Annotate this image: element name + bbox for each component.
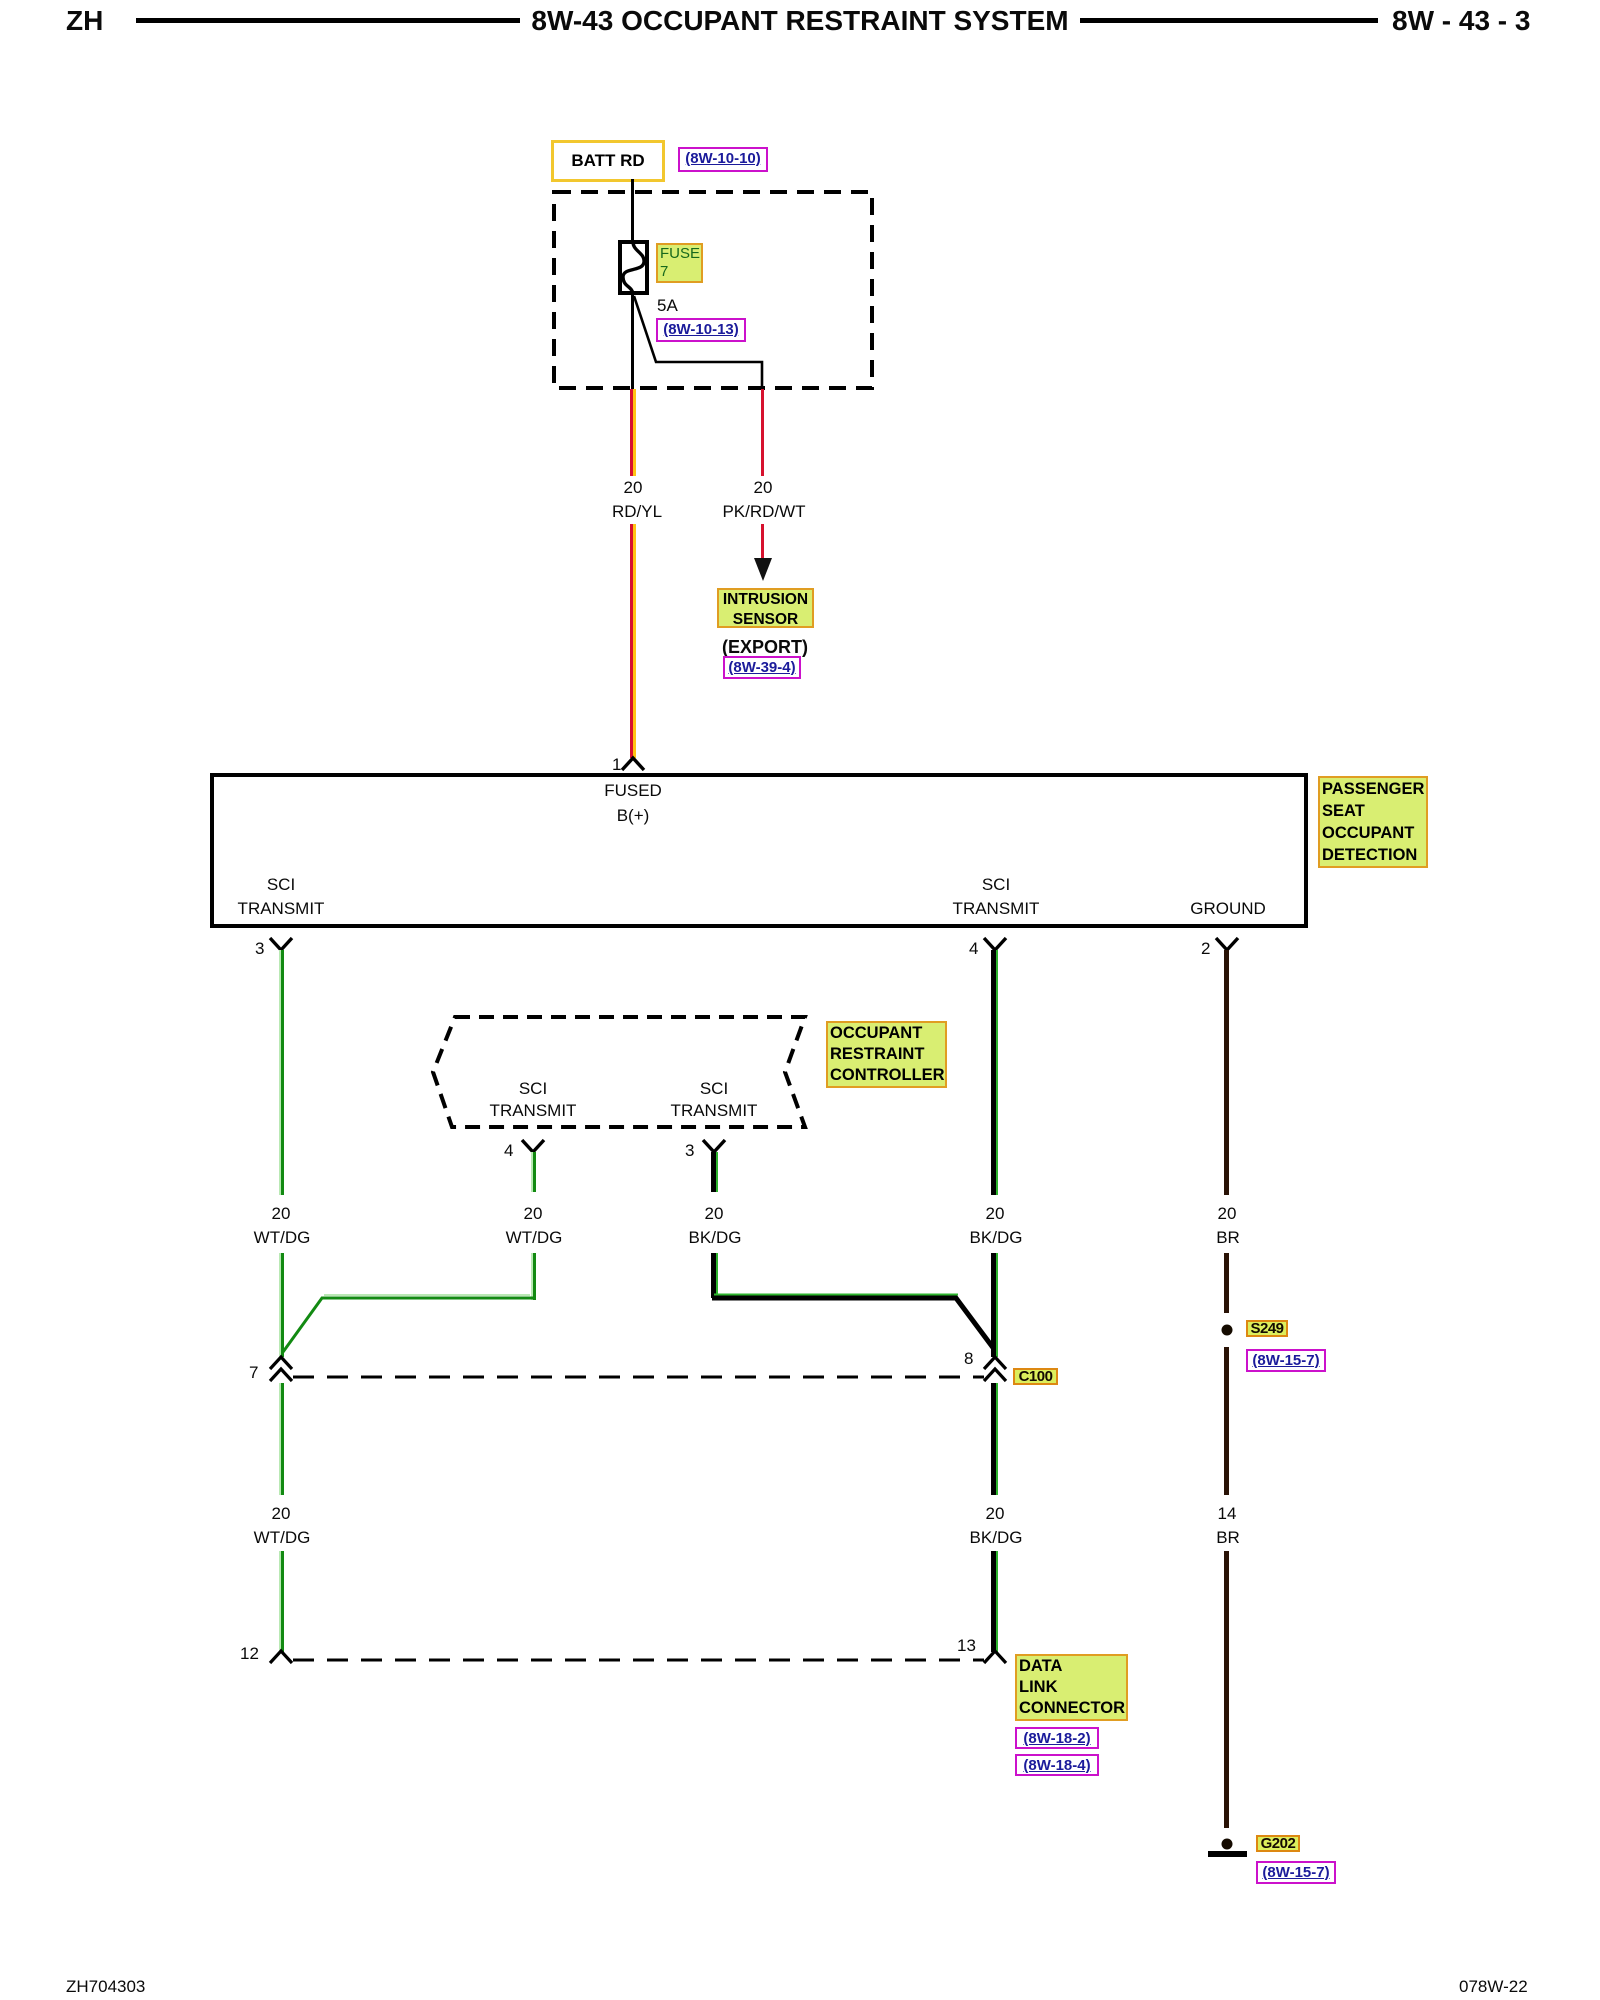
- node SCI TRANSMIT ORC left: [519, 1080, 547, 1098]
- component label INTRUSION SENSOR: [717, 588, 814, 628]
- wire BR pin2 segment 1: [1224, 950, 1229, 1195]
- node GROUND: [1190, 900, 1266, 918]
- fuse rating 5A: [657, 297, 678, 315]
- pin 8 number: [964, 1350, 973, 1368]
- wire label 20 BR row1: [1218, 1205, 1237, 1223]
- link (8W-39-4): [723, 656, 801, 679]
- link (8W-15-7) at S249: [1246, 1349, 1326, 1372]
- link (8W-10-13): [656, 318, 746, 342]
- wire WT/DG ORC segment 1: [531, 1152, 536, 1192]
- wire 20 PK/RD/WT upper segment: [761, 389, 764, 476]
- node SCI TRANSMIT ORC right: [700, 1080, 728, 1098]
- ground G202 label: [1256, 1835, 1300, 1852]
- header rule left: [136, 18, 520, 23]
- header page number: [1392, 7, 1530, 35]
- wire WT/DG pin3 segment 2: [279, 1253, 284, 1357]
- wire BK/DG pin4 segment 4: [991, 1551, 998, 1652]
- header rule right: [1080, 18, 1378, 23]
- splice S249 label: [1246, 1320, 1288, 1337]
- header label ZH: [66, 7, 103, 35]
- wire 20 PK/RD/WT lower segment: [761, 524, 764, 558]
- wire label 20 RD/YL: [624, 479, 643, 497]
- wire BK/DG pin4 segment 1: [991, 950, 998, 1195]
- pin 13 number: [957, 1637, 976, 1655]
- pin 2 number: [1201, 940, 1210, 958]
- footer sheet code: [66, 1978, 145, 1996]
- wire 20 RD/YL upper segment: [630, 389, 636, 476]
- pin 4 number: [969, 940, 978, 958]
- pin 7 number: [249, 1364, 258, 1382]
- node SCI TRANSMIT right: [982, 876, 1010, 894]
- wire label 20 WT/DG row1 left: [272, 1205, 291, 1223]
- wire BK/DG pin4 segment 3: [991, 1383, 998, 1495]
- component label DATA LINK CONNECTOR: [1015, 1654, 1128, 1721]
- wire label 20 WT/DG row2 left: [272, 1505, 291, 1523]
- link (8W-18-2): [1015, 1727, 1099, 1749]
- wire BK/DG ORC segment 1: [711, 1152, 718, 1192]
- connector C100 label: [1013, 1368, 1058, 1385]
- node SCI TRANSMIT left: [267, 876, 295, 894]
- wire label 20 PK/RD/WT: [754, 479, 773, 497]
- wire WT/DG pin3 segment 3: [279, 1383, 284, 1495]
- pin 12 number: [240, 1645, 259, 1663]
- wire label 20 BK/DG row2 right: [986, 1505, 1005, 1523]
- wire BK/DG ORC segment 2: [711, 1253, 718, 1298]
- link (8W-10-10): [678, 147, 768, 172]
- wire WT/DG pin3 segment 4: [279, 1551, 284, 1652]
- wire from BATT RD to fuse: [631, 179, 634, 242]
- wire BR segment 3: [1224, 1347, 1229, 1495]
- link (8W-15-7) at G202: [1256, 1861, 1336, 1884]
- wire WT/DG ORC segment 2: [531, 1253, 536, 1300]
- wire label 14 BR row2: [1218, 1505, 1237, 1523]
- PSOD module box: [210, 773, 1308, 928]
- wire label 20 WT/DG ORC: [524, 1205, 543, 1223]
- wire fuse output straight: [631, 295, 634, 390]
- ORC pin 3 number: [685, 1142, 694, 1160]
- link (8W-18-4): [1015, 1754, 1099, 1776]
- component label PASSENGER SEAT OCCUPANT DETECTION: [1318, 776, 1428, 868]
- pin 1 number: [612, 756, 621, 774]
- wire 20 RD/YL lower segment: [630, 524, 636, 758]
- pin 3 number: [255, 940, 264, 958]
- text (EXPORT): [722, 638, 808, 656]
- ORC pin 4 number: [504, 1142, 513, 1160]
- battery feed label BATT RD: [551, 140, 665, 182]
- header title: [531, 7, 1068, 35]
- wire BR segment 4: [1224, 1551, 1229, 1828]
- wire label 20 BK/DG row1 right: [986, 1205, 1005, 1223]
- wire BR pin2 segment 2: [1224, 1253, 1229, 1313]
- footer drawing number: [1459, 1978, 1528, 1996]
- wire WT/DG pin3 segment 1: [279, 950, 284, 1195]
- node FUSED B(+): [604, 782, 662, 800]
- component label OCCUPANT RESTRAINT CONTROLLER: [826, 1021, 947, 1088]
- fuse label FUSE 7: [656, 243, 703, 283]
- wire label 20 BK/DG ORC: [705, 1205, 724, 1223]
- wire BK/DG pin4 segment 2: [991, 1253, 998, 1357]
